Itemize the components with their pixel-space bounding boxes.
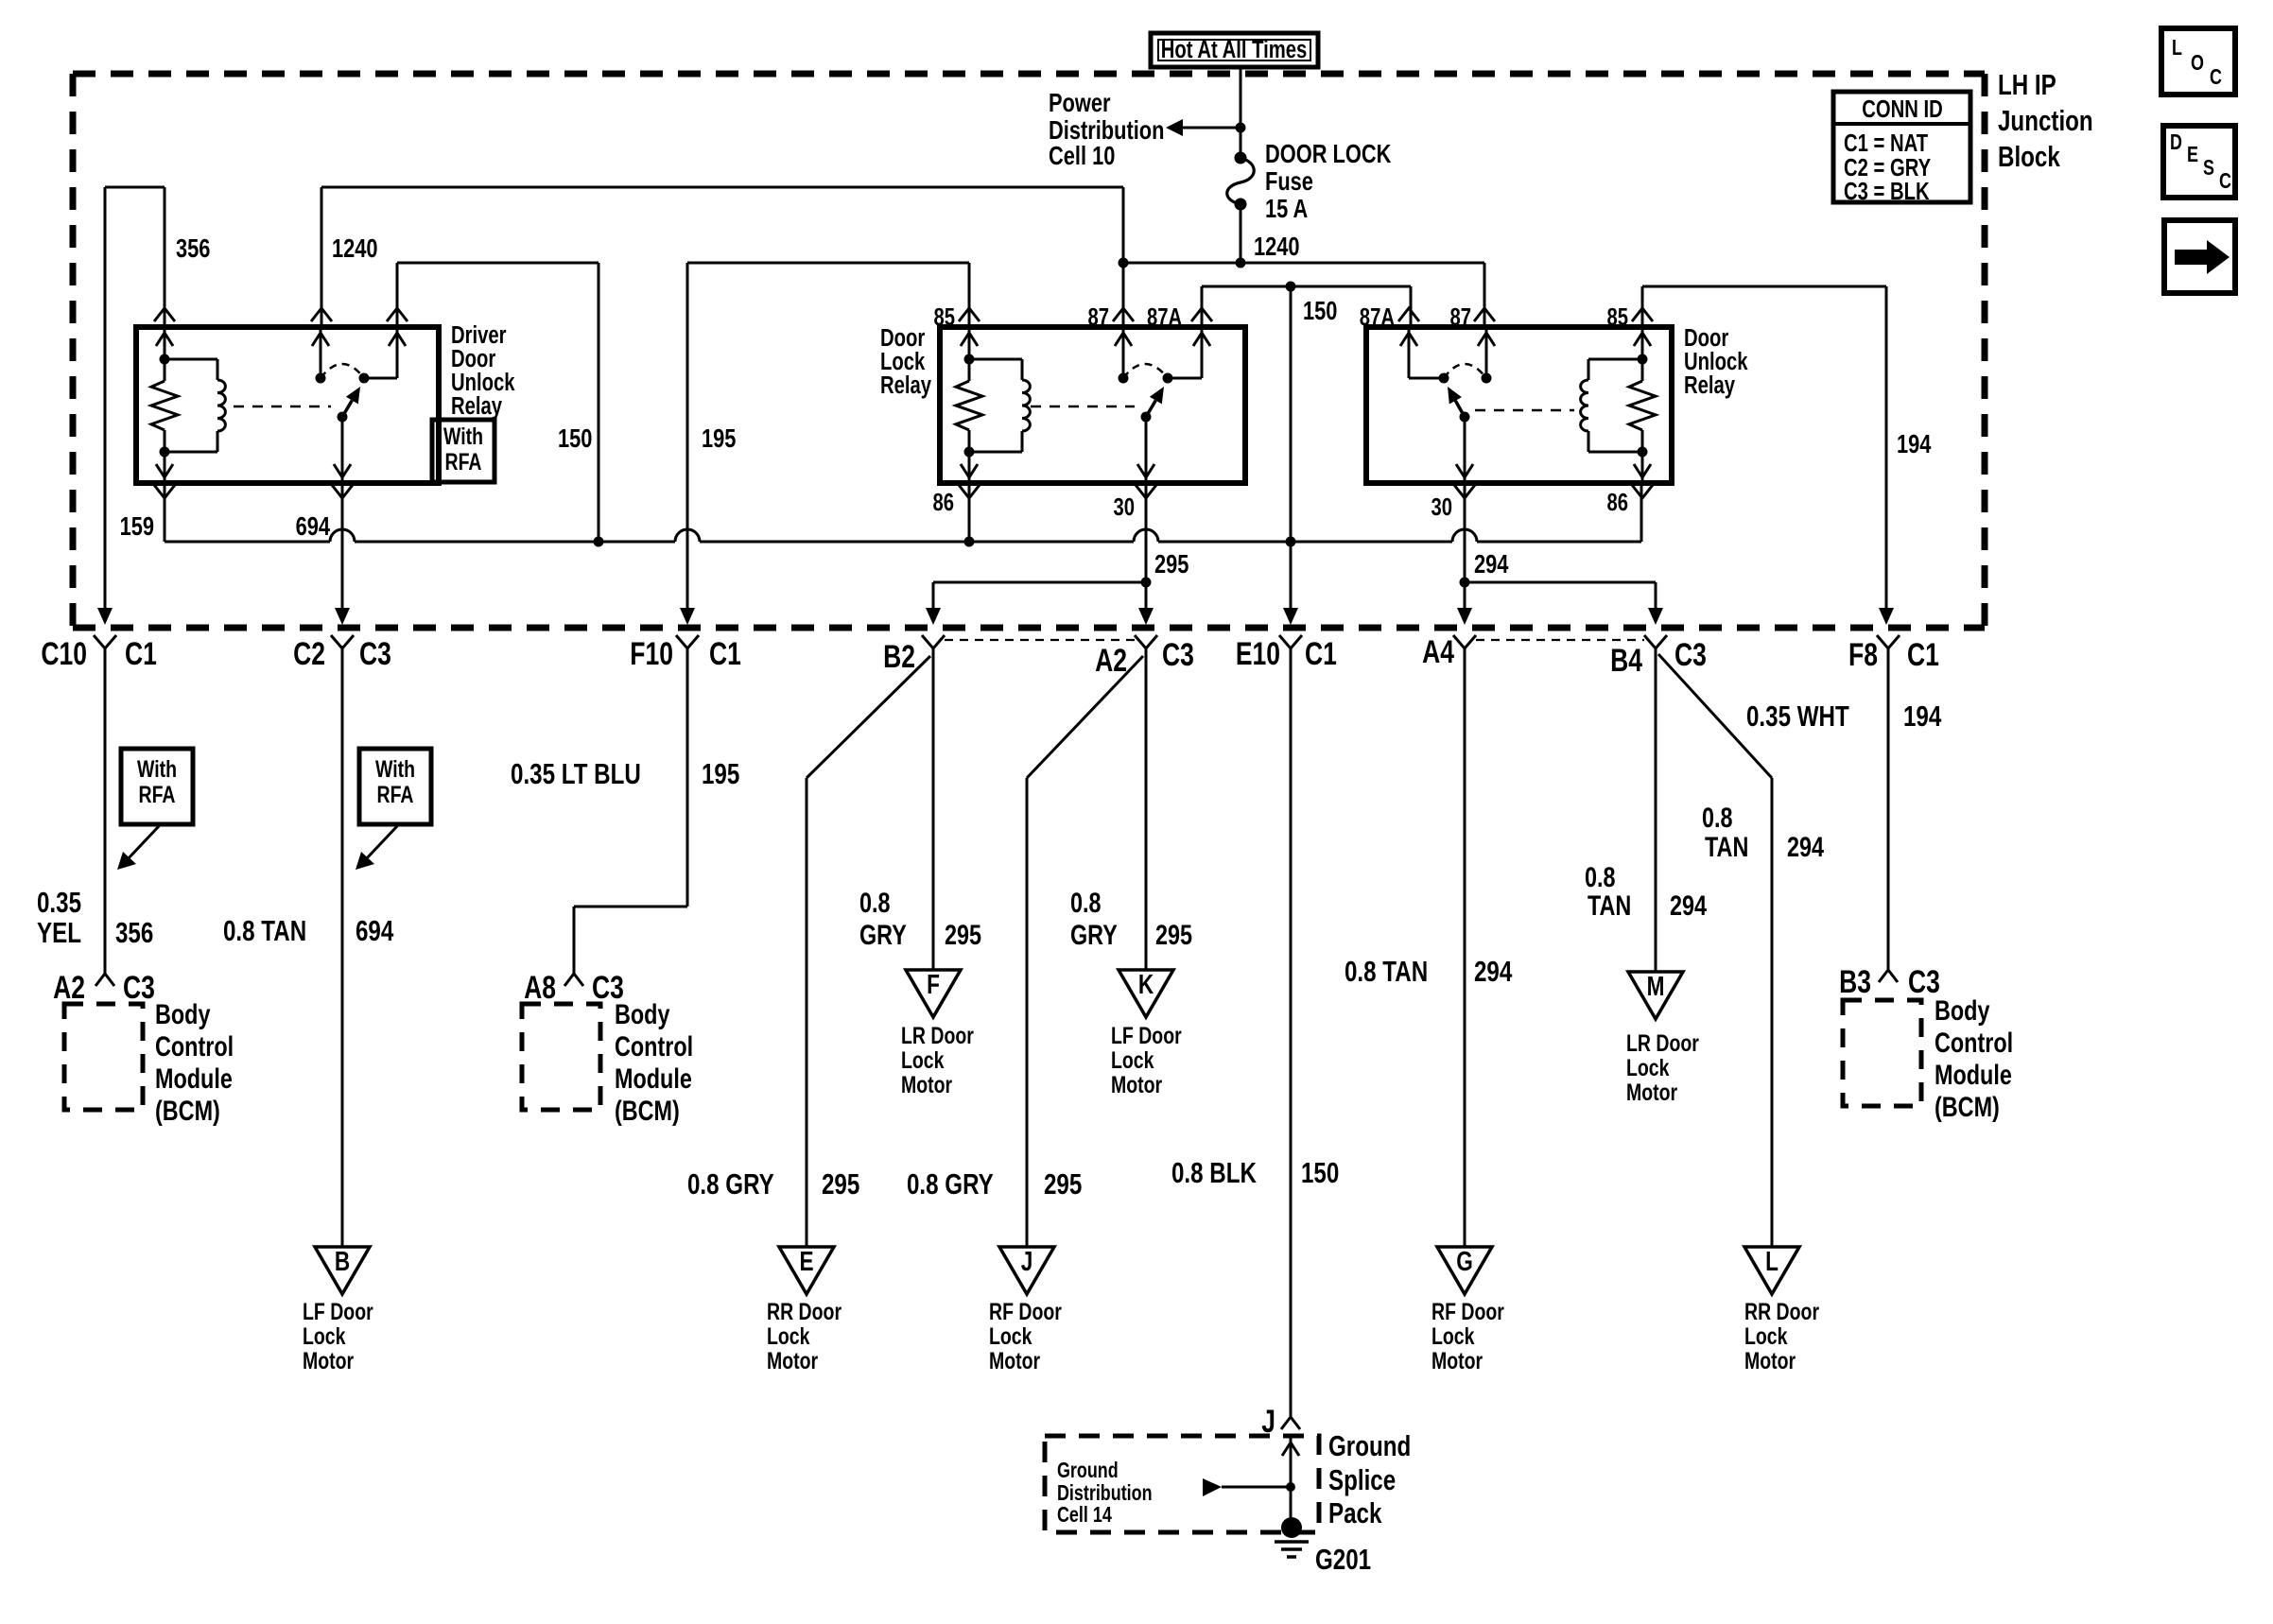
svg-text:C3: C3 [1674, 637, 1707, 673]
svg-text:295: 295 [1154, 549, 1189, 579]
relay Door Unlock Relay box [1366, 327, 1672, 483]
svg-text:RFA: RFA [139, 782, 176, 808]
svg-text:295: 295 [1155, 919, 1192, 950]
relay Door Lock Relay box [940, 327, 1245, 483]
svg-text:1240: 1240 [332, 233, 378, 263]
connector C2/C3 [331, 635, 354, 648]
svg-text:0.35 WHT: 0.35 WHT [1746, 700, 1849, 733]
svg-text:0.35 LT BLU: 0.35 LT BLU [511, 757, 641, 790]
svg-text:Control: Control [615, 1030, 693, 1062]
svg-text:Pack: Pack [1328, 1496, 1382, 1529]
svg-text:Body: Body [615, 998, 670, 1029]
svg-text:159: 159 [120, 511, 154, 541]
svg-text:E: E [799, 1245, 813, 1276]
svg-text:B: B [335, 1245, 350, 1276]
wire 195 down to F10 [686, 263, 689, 610]
svg-text:L: L [2172, 36, 2182, 60]
svg-text:Lock: Lock [767, 1323, 810, 1350]
svg-text:RFA: RFA [445, 449, 482, 475]
svg-text:C10: C10 [41, 636, 87, 672]
svg-text:Motor: Motor [989, 1348, 1040, 1374]
svg-text:CONN ID: CONN ID [1862, 95, 1943, 123]
connector body dashed B2-A2 [945, 639, 1135, 641]
svg-text:C1 = NAT: C1 = NAT [1844, 130, 1928, 157]
svg-text:Motor: Motor [1431, 1348, 1483, 1374]
svg-text:295: 295 [1044, 1167, 1082, 1201]
svg-text:87A: 87A [1360, 303, 1395, 331]
svg-text:0.8 GRY: 0.8 GRY [687, 1167, 774, 1201]
wire 294 relay3 common down [1464, 483, 1466, 610]
connector A4 [1453, 635, 1476, 648]
svg-text:F: F [927, 968, 940, 999]
svg-text:F10: F10 [630, 636, 673, 672]
svg-text:LR Door: LR Door [1626, 1030, 1699, 1057]
wire diagonal B2 to E [807, 656, 930, 778]
node fuse-bus junction [1236, 258, 1246, 268]
svg-text:Module: Module [155, 1063, 233, 1094]
svg-text:Motor: Motor [303, 1348, 354, 1374]
svg-text:0.8: 0.8 [1702, 802, 1733, 833]
wire inside ground splice pack [1290, 1436, 1293, 1524]
svg-text:G: G [1456, 1245, 1473, 1276]
svg-text:Body: Body [1935, 994, 1990, 1026]
svg-text:E10: E10 [1236, 636, 1280, 672]
svg-text:Fuse: Fuse [1265, 166, 1313, 196]
svg-text:B4: B4 [1610, 643, 1642, 679]
svg-text:DOOR LOCK: DOOR LOCK [1265, 139, 1391, 168]
motor triangle F [906, 970, 961, 1017]
wire 194 relay3 coil to F8 [1642, 285, 1886, 288]
CONN ID table [1833, 92, 1970, 202]
svg-text:295: 295 [822, 1167, 859, 1201]
svg-text:0.8 TAN: 0.8 TAN [1345, 955, 1428, 988]
node bus-87 junction [1119, 258, 1129, 268]
node relay2 86 on bus [964, 537, 975, 547]
wire 295 relay2 common down [1145, 483, 1148, 610]
svg-text:294: 294 [1787, 831, 1824, 862]
node splice junction [1286, 1482, 1295, 1492]
svg-text:Control: Control [155, 1030, 234, 1062]
svg-text:C3 = BLK: C3 = BLK [1844, 178, 1930, 205]
wire 150 to ground splice pack [1290, 648, 1293, 1416]
svg-text:Cell 14: Cell 14 [1057, 1503, 1112, 1528]
svg-text:295: 295 [945, 919, 981, 950]
svg-text:C1: C1 [125, 636, 157, 672]
wire 694 relay1 common to LF motor [341, 483, 344, 610]
svg-text:356: 356 [115, 916, 153, 949]
svg-text:RR Door: RR Door [767, 1299, 842, 1325]
svg-text:86: 86 [932, 489, 954, 516]
svg-text:C2: C2 [293, 636, 325, 672]
relay1 switch [320, 327, 322, 378]
svg-text:Module: Module [615, 1063, 692, 1094]
svg-text:150: 150 [1303, 296, 1337, 325]
wire relay1 pin87 to relay2 pin87 upper run [321, 186, 1123, 189]
With RFA box left [121, 749, 193, 824]
svg-text:J: J [1021, 1245, 1033, 1276]
svg-text:With: With [375, 756, 415, 783]
Body Control Module box mid [522, 1004, 600, 1110]
svg-text:A2: A2 [1095, 643, 1127, 679]
svg-text:694: 694 [296, 511, 330, 541]
svg-text:15 A: 15 A [1265, 194, 1308, 223]
wire bus to relay3 pin 87 [1484, 263, 1486, 327]
svg-text:G201: G201 [1315, 1543, 1371, 1576]
svg-text:85: 85 [1606, 303, 1628, 331]
svg-text:A4: A4 [1422, 634, 1454, 670]
svg-text:Hot At All Times: Hot At All Times [1161, 36, 1308, 63]
svg-text:F8: F8 [1848, 637, 1878, 673]
svg-text:C1: C1 [709, 636, 741, 672]
svg-text:C: C [2219, 169, 2231, 194]
svg-text:Lock: Lock [1744, 1323, 1788, 1350]
node main ground on bus [1286, 537, 1296, 547]
svg-text:294: 294 [1670, 890, 1707, 921]
svg-text:Lock: Lock [1431, 1323, 1475, 1350]
svg-text:GRY: GRY [1070, 919, 1118, 950]
svg-text:Body: Body [155, 998, 211, 1029]
svg-text:Lock: Lock [901, 1047, 945, 1074]
relay1 pin marks [154, 308, 175, 321]
svg-text:0.8 GRY: 0.8 GRY [907, 1167, 994, 1201]
svg-text:RF Door: RF Door [989, 1299, 1062, 1325]
With RFA arrow left [127, 826, 159, 860]
With RFA arrow mid [365, 826, 397, 860]
relay1 coil branch [164, 327, 166, 359]
svg-text:Motor: Motor [767, 1348, 818, 1374]
svg-text:356: 356 [176, 233, 210, 263]
svg-text:Distribution: Distribution [1057, 1481, 1153, 1506]
svg-text:(BCM): (BCM) [155, 1095, 220, 1126]
Hot At All Times box [1151, 33, 1318, 67]
svg-text:RF Door: RF Door [1431, 1299, 1504, 1325]
motor triangle J [999, 1247, 1054, 1294]
wire to power distribution cell 10 [1177, 127, 1241, 130]
wire to LF door lock motor K [1145, 648, 1148, 970]
svg-text:Block: Block [1998, 140, 2060, 173]
node 295 split [1141, 578, 1152, 588]
svg-text:1240: 1240 [1254, 232, 1300, 261]
svg-text:A8: A8 [524, 970, 556, 1006]
svg-text:87: 87 [1449, 303, 1471, 331]
svg-text:D: D [2170, 130, 2182, 155]
relay2 switch [1122, 327, 1125, 378]
svg-text:GRY: GRY [859, 919, 907, 950]
svg-text:195: 195 [702, 423, 736, 453]
svg-text:150: 150 [1301, 1156, 1339, 1189]
svg-text:C3: C3 [123, 970, 155, 1006]
connector E10/C1 [1279, 635, 1302, 648]
svg-text:LF Door: LF Door [303, 1299, 373, 1325]
svg-text:E: E [2187, 143, 2198, 167]
svg-text:A2: A2 [53, 970, 85, 1006]
wire 195 relay2 coil feed [687, 262, 969, 265]
wire fuse to 1240 bus [1240, 204, 1242, 263]
svg-text:C3: C3 [359, 636, 391, 672]
svg-text:Lock: Lock [303, 1323, 346, 1350]
connector B4/C3 [1644, 635, 1667, 648]
forward arrow box [2164, 220, 2235, 293]
LOC box [2161, 28, 2235, 95]
svg-text:With: With [443, 423, 483, 450]
wire relay1 87A contact to ground drop 150 [397, 262, 599, 265]
wire 294 branch to B4 [1465, 581, 1656, 584]
svg-text:Power: Power [1049, 88, 1111, 117]
svg-text:Lock: Lock [1626, 1055, 1670, 1081]
node power distribution tap [1236, 123, 1246, 133]
svg-text:(BCM): (BCM) [615, 1095, 680, 1126]
svg-text:C1: C1 [1305, 636, 1337, 672]
svg-text:B2: B2 [883, 639, 915, 675]
svg-text:C1: C1 [1907, 637, 1939, 673]
wire relay3 86 to bus [1640, 483, 1643, 542]
connector F8/C1 [1877, 635, 1900, 648]
svg-text:0.8 BLK: 0.8 BLK [1171, 1156, 1257, 1189]
motor triangle M [1628, 972, 1683, 1019]
relay1 actuator dashed link [234, 406, 331, 408]
svg-text:87: 87 [1087, 303, 1109, 331]
svg-text:85: 85 [933, 303, 955, 331]
svg-text:M: M [1647, 970, 1665, 1001]
wire ground bus [164, 483, 166, 542]
wire 356 to BCM [104, 648, 107, 974]
svg-text:Motor: Motor [1744, 1348, 1796, 1374]
wire to LR door lock motor F [932, 648, 935, 970]
svg-text:194: 194 [1897, 429, 1931, 458]
relay3 pin marks [1398, 308, 1419, 321]
svg-text:O: O [2191, 51, 2204, 76]
svg-text:0.8: 0.8 [859, 887, 891, 918]
With RFA box at relay1 [432, 420, 495, 482]
Body Control Module box left [64, 1004, 143, 1110]
motor triangle B [315, 1247, 370, 1294]
svg-text:150: 150 [558, 423, 592, 453]
motor triangle L [1744, 1247, 1799, 1294]
svg-text:LR Door: LR Door [901, 1023, 974, 1049]
motor triangle G [1437, 1247, 1492, 1294]
svg-text:K: K [1138, 968, 1154, 999]
svg-text:Relay: Relay [880, 371, 931, 399]
svg-text:Lock: Lock [989, 1323, 1032, 1350]
wire 356 down to C10 [104, 187, 107, 610]
svg-text:294: 294 [1474, 955, 1513, 988]
connector B2 [922, 635, 945, 648]
svg-text:194: 194 [1903, 700, 1942, 733]
Body Control Module box right [1843, 1000, 1921, 1106]
svg-text:(BCM): (BCM) [1935, 1091, 2000, 1122]
LH IP Junction Block dashed border [73, 71, 1985, 78]
svg-text:Module: Module [1935, 1059, 2012, 1090]
svg-text:87A: 87A [1147, 303, 1182, 331]
svg-text:L: L [1765, 1245, 1778, 1276]
svg-text:694: 694 [356, 914, 394, 947]
svg-text:C3: C3 [1162, 637, 1194, 673]
motor triangle K [1119, 970, 1173, 1017]
svg-text:86: 86 [1606, 489, 1628, 516]
svg-text:Motor: Motor [901, 1072, 952, 1098]
connector A2/C3 [1135, 635, 1157, 648]
svg-text:0.8: 0.8 [1585, 861, 1616, 892]
svg-text:LF Door: LF Door [1111, 1023, 1182, 1049]
wire 295 branch to B2 [933, 581, 1146, 584]
svg-text:Cell 10: Cell 10 [1049, 141, 1115, 170]
svg-text:30: 30 [1431, 493, 1452, 521]
svg-text:LH IP: LH IP [1998, 68, 2056, 101]
wire ground distribution link [1222, 1486, 1291, 1489]
relay3 switch [1408, 327, 1411, 378]
svg-text:Relay: Relay [1684, 371, 1735, 399]
svg-text:RFA: RFA [377, 782, 414, 808]
svg-text:Motor: Motor [1626, 1080, 1677, 1106]
wire 195 to BCM A8 [686, 648, 689, 907]
node 150 drop junction [1286, 282, 1296, 292]
wire to RF door lock motor G [1464, 648, 1466, 1247]
wire diagonal B4 to L [1658, 654, 1772, 778]
svg-text:B3: B3 [1839, 964, 1871, 1000]
wire 150 main ground down to E10 [1290, 286, 1293, 610]
svg-text:RR Door: RR Door [1744, 1299, 1819, 1325]
wire diagonal A2 to J [1027, 656, 1143, 778]
wire 356 top jog [105, 186, 165, 189]
connector F10/C1 [676, 635, 699, 648]
connector C10/C1 [94, 635, 116, 648]
svg-text:Ground: Ground [1328, 1429, 1411, 1462]
svg-text:YEL: YEL [37, 916, 81, 949]
svg-text:294: 294 [1474, 549, 1508, 579]
svg-text:Motor: Motor [1111, 1072, 1162, 1098]
connector J mark [1281, 1417, 1300, 1429]
svg-text:30: 30 [1113, 493, 1135, 521]
svg-text:C: C [2210, 65, 2222, 90]
svg-text:S: S [2203, 156, 2214, 181]
svg-text:TAN: TAN [1588, 890, 1631, 921]
wire to LR door lock motor M [1655, 648, 1657, 972]
svg-text:Lock: Lock [1111, 1047, 1154, 1074]
wire 194 to BCM B3 [1887, 648, 1890, 970]
svg-text:TAN: TAN [1705, 831, 1748, 862]
svg-text:Relay: Relay [451, 392, 502, 420]
wire 87A ground bus mid [1202, 285, 1411, 288]
fuse DOOR LOCK 15A [1235, 152, 1247, 164]
relay2 actuator dashed link [1031, 406, 1135, 408]
With RFA box mid [359, 749, 431, 824]
svg-text:Ground: Ground [1057, 1459, 1119, 1483]
svg-text:0.8: 0.8 [1070, 887, 1102, 918]
svg-text:0.8 TAN: 0.8 TAN [223, 914, 306, 947]
svg-text:With: With [137, 756, 177, 783]
relay2 pin marks [959, 308, 980, 321]
ground G201 [1281, 1517, 1302, 1538]
DESC box [2163, 126, 2235, 198]
relay Driver Door Unlock Relay box [136, 327, 439, 483]
connector row dashed line [73, 625, 1985, 631]
svg-text:Control: Control [1935, 1027, 2013, 1058]
node 150 drop on bus [594, 537, 604, 547]
relay3 coil branch [1641, 327, 1644, 359]
wire fuse feed [1240, 67, 1242, 158]
relay2 coil branch [968, 327, 971, 359]
motor triangle E [779, 1247, 834, 1294]
node 294 split [1460, 578, 1470, 588]
svg-text:Splice: Splice [1328, 1463, 1396, 1496]
Ground Splice Pack dashed box [1045, 1436, 1319, 1532]
svg-text:0.35: 0.35 [37, 886, 81, 919]
relay3 actuator dashed link [1475, 409, 1574, 412]
svg-text:195: 195 [702, 757, 739, 790]
connector body dashed A4-B4 [1476, 639, 1644, 641]
svg-text:Junction: Junction [1998, 104, 2093, 137]
wire 1240 power bus [1123, 262, 1484, 265]
